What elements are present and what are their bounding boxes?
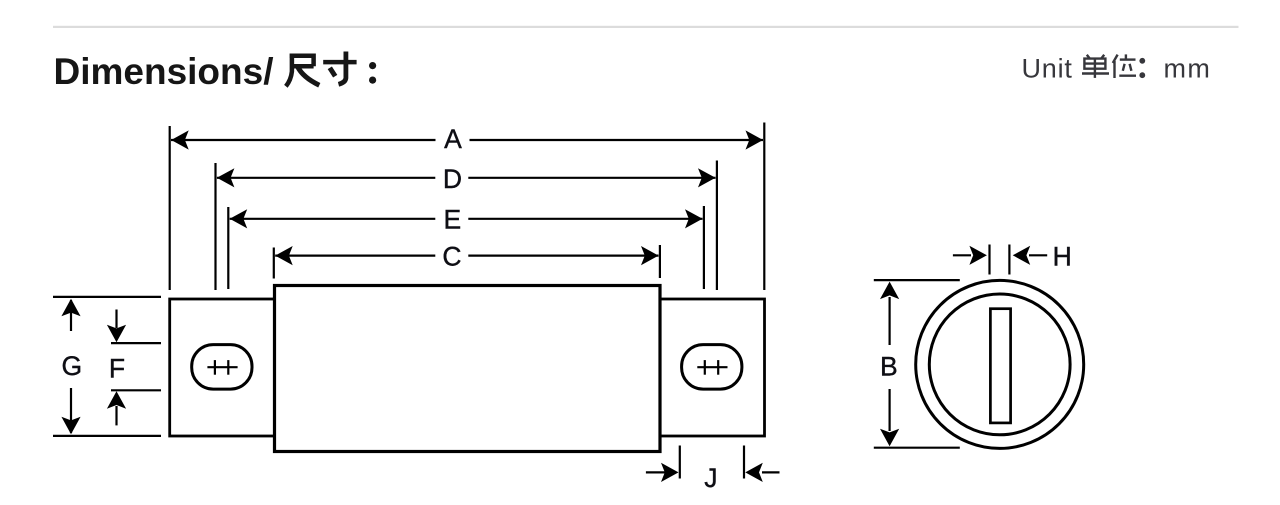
svg-text:C: C (442, 242, 461, 272)
left slot cross mark (207, 360, 237, 375)
title colon (369, 62, 376, 84)
arrow D right (698, 168, 716, 187)
unit colon (1139, 58, 1145, 78)
arrow E right (685, 209, 703, 228)
fuse body (275, 286, 661, 452)
ext line D left (214, 163, 216, 290)
svg-text:B: B (880, 352, 898, 382)
dim line F lower (115, 406, 117, 425)
inner circle (929, 294, 1070, 435)
arrow C right (641, 246, 659, 265)
ext line E left (227, 207, 229, 289)
ext line A left (169, 126, 171, 290)
dim line C (275, 255, 658, 257)
svg-text:J: J (704, 463, 717, 493)
ext line F top (111, 342, 161, 344)
arrow H right (1013, 246, 1030, 265)
arrow A right (746, 130, 764, 149)
left slot oval (192, 345, 252, 390)
tick J left (679, 446, 681, 479)
arrow C left (275, 246, 293, 265)
right terminal block (660, 299, 765, 436)
dim line D (217, 177, 716, 179)
arrow F down (107, 325, 126, 343)
svg-text:G: G (61, 351, 82, 381)
dim line A (171, 139, 763, 141)
svg-text:D: D (443, 164, 462, 194)
dim line H left (953, 254, 971, 256)
arrow B down (880, 429, 899, 447)
tick H left (988, 245, 990, 275)
outer circle (916, 280, 1084, 448)
ext line G bottom (53, 435, 161, 437)
arrow D left (217, 168, 235, 187)
top rule (53, 26, 1239, 28)
ext line C left (273, 248, 275, 279)
slot rect (990, 309, 1010, 423)
left terminal block (170, 299, 275, 436)
dim line G upper (70, 300, 72, 331)
ext line E right (703, 206, 705, 289)
ext line B top (874, 279, 960, 281)
dim line F upper (115, 310, 117, 329)
dim line J right (762, 471, 780, 473)
right slot cross mark (697, 360, 727, 375)
dim line G lower (70, 388, 72, 433)
arrow H left (969, 246, 987, 265)
unit CJK 位 (1113, 54, 1136, 78)
ext line B bottom (874, 447, 960, 449)
dim line E (230, 218, 703, 220)
svg-text:Unit: Unit (1022, 54, 1073, 84)
dim line J left (646, 471, 666, 473)
ext line F bottom (111, 389, 161, 391)
tick H right (1008, 245, 1010, 275)
arrow G down (61, 417, 80, 435)
ext line A right (763, 123, 765, 291)
svg-text:mm: mm (1164, 54, 1212, 84)
unit CJK 单 (1082, 55, 1109, 78)
svg-text:E: E (443, 205, 461, 235)
dim line B upper (888, 297, 890, 345)
arrow F up (107, 391, 126, 409)
dim line H right (1029, 254, 1047, 256)
svg-text:F: F (109, 354, 125, 384)
right slot oval (682, 345, 742, 390)
arrow E left (230, 209, 248, 228)
svg-text:Dimensions/: Dimensions/ (54, 51, 274, 92)
arrow B up (880, 282, 899, 300)
ext line C right (659, 245, 661, 278)
arrow G up (61, 299, 80, 317)
svg-text:H: H (1053, 241, 1072, 271)
arrow J left (661, 463, 679, 482)
dim line B lower (888, 389, 890, 431)
ext line D right (716, 161, 718, 291)
title CJK 寸 (323, 52, 356, 85)
arrow J right (745, 463, 763, 482)
tick J right (743, 446, 745, 479)
ext line G top (53, 296, 161, 298)
svg-text:A: A (444, 124, 462, 154)
title CJK 尺 (286, 54, 319, 87)
arrow A left (171, 130, 189, 149)
